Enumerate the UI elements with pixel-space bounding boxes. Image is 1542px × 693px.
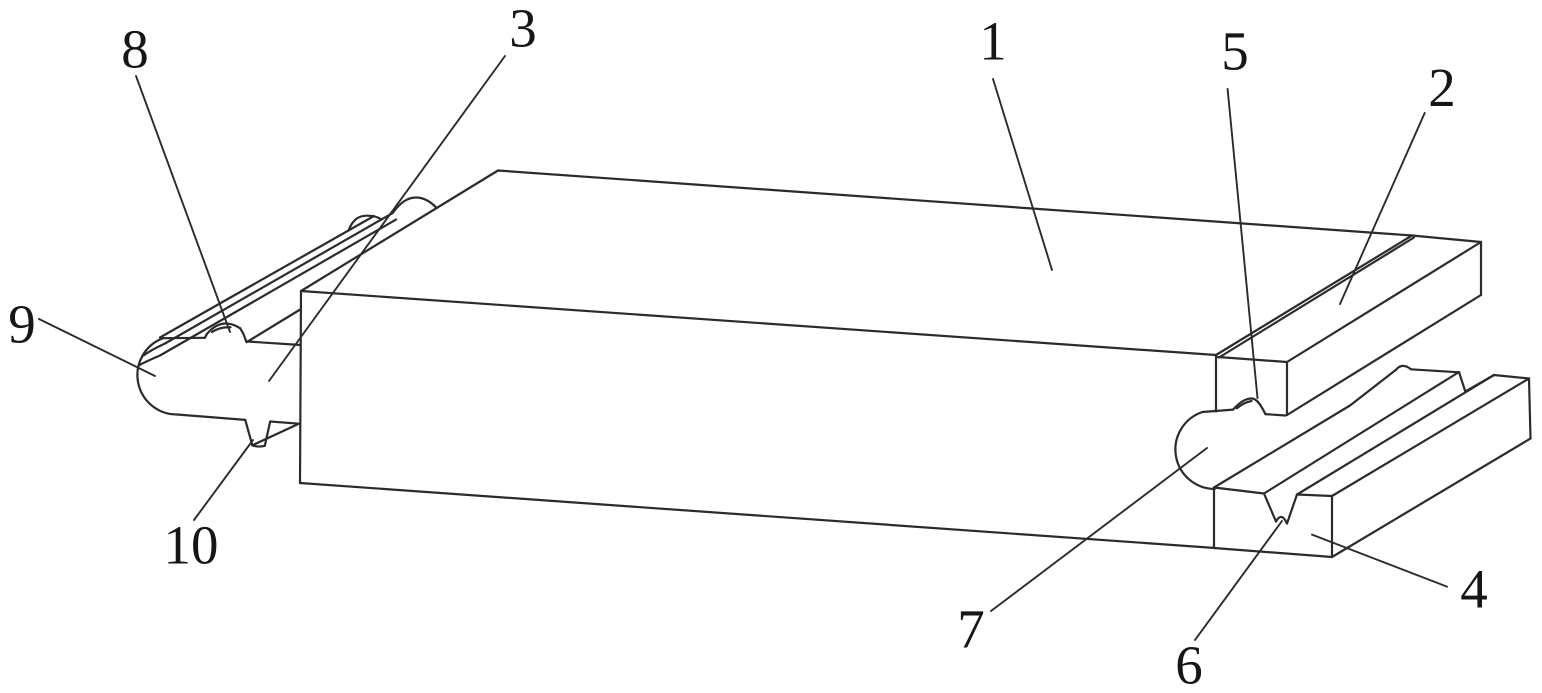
main plate front-left vertical edge bbox=[300, 291, 301, 483]
rail 2 bottom-front long edge bbox=[1287, 295, 1481, 415]
leader line 4 bbox=[1312, 535, 1447, 587]
rail 4 front-top long edge bbox=[1332, 379, 1529, 497]
svg-text:4: 4 bbox=[1460, 559, 1488, 620]
rail 4 far-end groove V left side bbox=[1459, 372, 1465, 392]
rail 4 far end top edge left part bbox=[1411, 369, 1459, 372]
left tongue bump right descent bbox=[240, 328, 246, 341]
left tongue bump step-up (feature 8) bbox=[205, 334, 207, 338]
left tongue bump outer arc bbox=[207, 324, 240, 334]
rail 2 top-back long edge bbox=[1219, 238, 1414, 358]
leader line 10 bbox=[194, 440, 253, 520]
left tongue notch back depth edge bbox=[252, 424, 298, 445]
leader line 7 bbox=[991, 448, 1207, 611]
rail 2 near end face right vertical edge bbox=[1286, 362, 1288, 415]
rail 4 end-face notch left side (notch 6) bbox=[1264, 494, 1276, 522]
main plate front-right vertical edge upper part bbox=[1215, 355, 1217, 412]
leader line 1 bbox=[993, 79, 1052, 270]
left tongue bump inner arc bbox=[212, 327, 231, 332]
svg-text:3: 3 bbox=[509, 0, 537, 59]
svg-text:8: 8 bbox=[121, 19, 149, 80]
left tongue top edge left part bbox=[163, 337, 205, 340]
main plate top face right edge bbox=[1216, 236, 1412, 356]
rail 4 near end face bottom edge bbox=[1214, 548, 1332, 557]
main plate top face front edge bbox=[301, 291, 1216, 355]
rail 4 near end face top edge right part bbox=[1297, 495, 1332, 497]
rail 4 end-face notch right side bbox=[1287, 495, 1297, 524]
left rail bottom-front edge stub L4 bbox=[247, 309, 301, 342]
leader line 5 bbox=[1228, 89, 1258, 398]
svg-text:9: 9 bbox=[8, 294, 36, 355]
rail 4 bottom-front long edge bbox=[1332, 439, 1531, 558]
rail 4 top-back long edge bbox=[1214, 370, 1396, 488]
left rail hump A (groove profile small dome) bbox=[349, 216, 382, 231]
left tongue bulb arc (feature 9) bbox=[137, 338, 177, 414]
leader line 9 bbox=[39, 319, 155, 376]
main plate top face back edge bbox=[498, 171, 1412, 236]
rail 4 groove back long edge bbox=[1264, 372, 1459, 494]
right tongue bulb arc (feature 7) bbox=[1175, 412, 1214, 489]
leader line 8 bbox=[136, 76, 230, 332]
rail 4 far end right vertical edge bbox=[1529, 379, 1531, 439]
svg-text:1: 1 bbox=[979, 11, 1007, 72]
main plate bottom front edge bbox=[300, 483, 1215, 548]
rail 4 far-end groove V right side bbox=[1465, 375, 1494, 392]
left tongue bottom edge bbox=[177, 415, 245, 420]
rail 4 groove front long edge bbox=[1297, 375, 1494, 495]
left rail line L2 (groove rail inner edge) bbox=[144, 213, 393, 356]
rail 4 near end face right vertical edge bbox=[1331, 496, 1333, 557]
right tongue top edge left part bbox=[1203, 410, 1234, 412]
left tongue bottom edge right part bbox=[270, 422, 299, 424]
leader line 6 bbox=[1195, 521, 1282, 640]
right tongue top edge right part bbox=[1265, 414, 1285, 415]
leader line 2 bbox=[1340, 113, 1425, 304]
leader line 3 bbox=[269, 56, 505, 381]
left rail line L3 (groove rail inner edge 2) bbox=[140, 220, 397, 365]
svg-text:5: 5 bbox=[1221, 21, 1249, 82]
rail 4 near end face top edge left part bbox=[1214, 488, 1264, 494]
left tongue notch right side bbox=[265, 422, 270, 446]
left tongue notch left side (feature 10) bbox=[245, 420, 252, 445]
rail 4 far-end ridge profile hump bbox=[1396, 366, 1411, 370]
left rail hump B (groove profile large dome) bbox=[393, 198, 437, 214]
rail 4 far end top edge right part bbox=[1494, 375, 1529, 379]
rail 2 far end top edge bbox=[1412, 236, 1481, 243]
main plate top face left edge bbox=[301, 171, 498, 292]
right tongue bump inner arc bbox=[1237, 401, 1252, 408]
left tongue top edge right part bbox=[246, 341, 300, 345]
rail 2 far end right vertical edge bbox=[1480, 242, 1482, 295]
rail 2 near end face top edge bbox=[1218, 357, 1287, 362]
svg-text:2: 2 bbox=[1428, 57, 1456, 118]
rail 4 near end face left vertical edge bbox=[1213, 488, 1215, 549]
rail 4 end-face notch curl bbox=[1276, 517, 1287, 524]
left tongue notch bottom bbox=[252, 445, 264, 446]
rail 2 top-front long edge bbox=[1287, 242, 1481, 362]
left rail line L1 (groove rail rear-top edge) bbox=[160, 216, 374, 338]
svg-text:7: 7 bbox=[957, 599, 985, 660]
svg-text:6: 6 bbox=[1175, 635, 1203, 693]
svg-text:10: 10 bbox=[164, 515, 219, 576]
right tongue bump outer arc (feature 5) bbox=[1233, 398, 1265, 414]
